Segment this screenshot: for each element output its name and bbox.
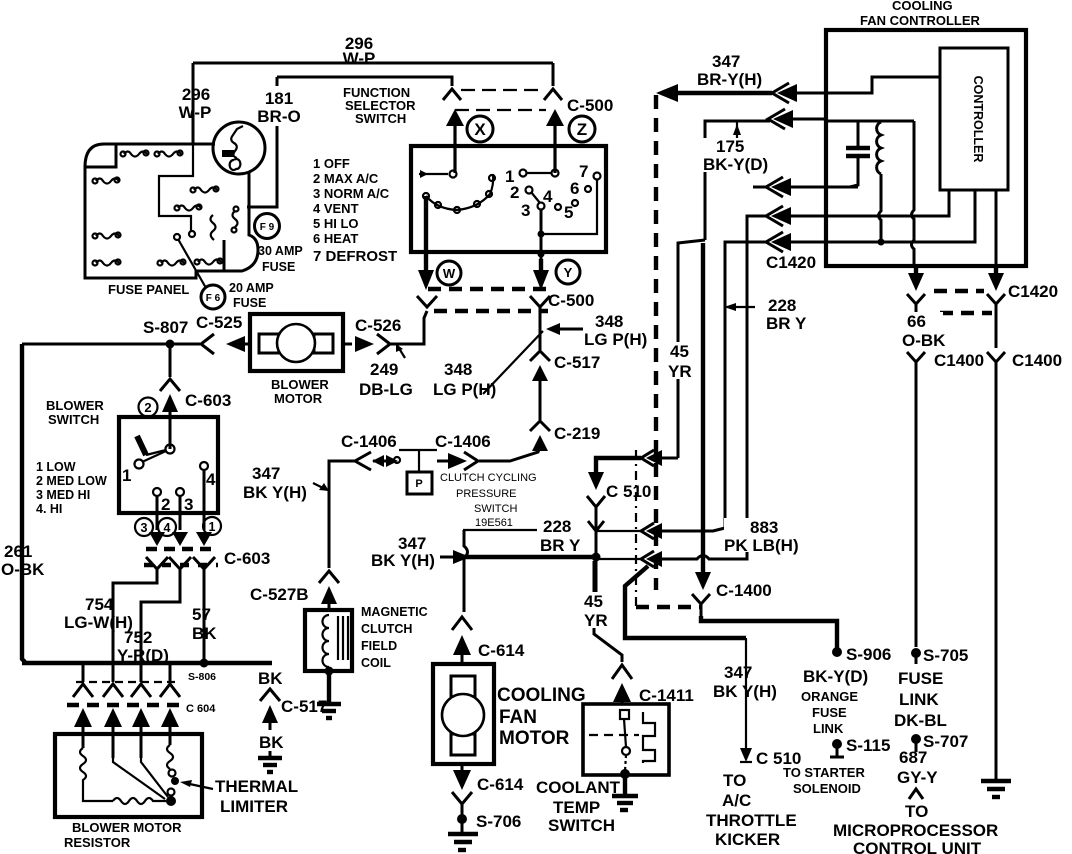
male arrow C-517 lower	[262, 705, 278, 730]
inductor coil inside controller	[877, 122, 881, 174]
male arrow terminal 3	[172, 532, 188, 546]
svg-text:4: 4	[543, 187, 553, 206]
svg-text:1: 1	[209, 520, 216, 534]
svg-text:A/C: A/C	[722, 791, 751, 810]
label MAGNETIC CLUTCH FIELD COIL	[361, 605, 428, 670]
blower switch wiper	[135, 436, 175, 469]
resistor leg 2 diagonal	[113, 758, 165, 799]
terminal 2 wire	[153, 488, 170, 530]
wire C-603 vertical from S-807	[169, 348, 172, 377]
svg-text:228: 228	[543, 517, 571, 536]
svg-text:BK Y(H): BK Y(H)	[371, 551, 435, 570]
capacitor C inside controller	[846, 121, 870, 187]
fuse symbols bottom row	[158, 259, 223, 266]
svg-text:C-525: C-525	[196, 313, 242, 332]
long dashed vertical (controller harness boundary)	[654, 95, 658, 590]
dashed connector bottom (C-1400 boundary)	[636, 605, 700, 609]
svg-text:1 OFF: 1 OFF	[313, 156, 350, 171]
fuse symbols left column	[93, 178, 121, 266]
svg-text:THERMAL: THERMAL	[215, 777, 298, 796]
wire function selector feed	[277, 77, 452, 86]
female chevron resistor 4	[160, 684, 180, 697]
label FUNCTION SELECTOR SWITCH	[343, 85, 416, 126]
male arrow C-1411	[613, 683, 631, 704]
label 687 GY-Y	[897, 748, 938, 787]
svg-text:C-614: C-614	[478, 641, 525, 660]
resistor element bottom (squiggle)	[113, 798, 167, 804]
wire pressure switch top link	[399, 449, 437, 451]
svg-text:2 MAX A/C: 2 MAX A/C	[313, 171, 379, 186]
dashed connector bus C 604	[67, 703, 185, 707]
female chevron below right output	[987, 294, 1005, 304]
svg-text:MAGNETIC: MAGNETIC	[361, 605, 428, 619]
svg-text:O-BK: O-BK	[902, 331, 946, 350]
svg-text:LIMITER: LIMITER	[220, 797, 288, 816]
wire pair2 left side	[596, 530, 640, 532]
svg-text:2: 2	[510, 183, 519, 202]
wire row3 stub left	[753, 186, 768, 189]
selector output W heavy wire and arrow	[418, 196, 434, 290]
svg-text:BR Y: BR Y	[540, 536, 581, 555]
chevron pair row3	[766, 177, 826, 197]
male arrow C-603 into blower switch	[162, 394, 178, 449]
svg-text:C-517: C-517	[554, 353, 600, 372]
legend 1 LOW 2 MED LOW 3 MED HI 4 HI	[36, 460, 107, 516]
dashed connector segment row2	[940, 311, 992, 315]
svg-text:5: 5	[564, 203, 573, 222]
svg-text:2: 2	[144, 400, 151, 415]
selector contact arc	[423, 174, 495, 213]
svg-text:DK-BL: DK-BL	[894, 711, 947, 730]
female chevron below left output	[907, 294, 925, 304]
chevron pair row2	[768, 109, 826, 129]
svg-text:1 LOW: 1 LOW	[36, 460, 76, 474]
svg-text:C-1406: C-1406	[435, 432, 491, 451]
wire 752 Y-R(D) from terminal 3	[141, 580, 180, 682]
svg-text:181: 181	[265, 89, 293, 108]
svg-text:C-603: C-603	[224, 549, 270, 568]
label CLUTCH CYCLING PRESSURE SWITCH 19E561	[440, 472, 537, 529]
connector C-219 chevron pair	[530, 421, 550, 451]
male arrow C-614 top	[453, 635, 471, 666]
female chevron C-614 top	[452, 617, 472, 630]
label COOLING FAN MOTOR	[497, 685, 586, 749]
wire coil to ground	[325, 667, 334, 704]
svg-text:GY-Y: GY-Y	[897, 768, 938, 787]
label 66 O-BK	[902, 312, 946, 350]
svg-text:FUSE: FUSE	[898, 669, 943, 688]
svg-text:THROTTLE: THROTTLE	[706, 811, 797, 830]
female chevron resistor 2	[103, 684, 123, 697]
resistor element left (squiggle)	[80, 748, 113, 801]
wire 175 BK-Y(D) from row2	[705, 121, 770, 240]
male arrow into blower motor	[226, 336, 250, 352]
male arrow resistor 3	[132, 708, 150, 758]
svg-text:S-906: S-906	[846, 645, 891, 664]
terminal 4 wire	[200, 462, 216, 530]
blower motor box	[250, 314, 343, 371]
svg-text:W-P: W-P	[343, 49, 376, 68]
svg-text:4: 4	[164, 521, 171, 535]
svg-text:FIELD: FIELD	[361, 639, 397, 653]
svg-text:SWITCH: SWITCH	[548, 816, 615, 835]
controller output left arrow C1420	[908, 266, 924, 291]
svg-text:S-706: S-706	[476, 812, 521, 831]
svg-text:30 AMP: 30 AMP	[258, 244, 303, 258]
wire pin3 down to Y output	[538, 209, 545, 259]
svg-text:45: 45	[584, 592, 603, 611]
dashed connector segment row1	[934, 289, 984, 293]
cooling fan controller box	[826, 30, 1026, 266]
svg-text:YR: YR	[584, 611, 608, 630]
blower switch box	[119, 417, 218, 513]
female chevron C-614 bottom	[452, 792, 472, 833]
svg-text:COOLANT: COOLANT	[536, 778, 621, 797]
svg-text:C1400: C1400	[934, 351, 984, 370]
wire chevron3 down to coolant switch (45 YR)	[594, 561, 622, 662]
female chevron C-1406 left	[355, 452, 371, 470]
svg-text:C-1400: C-1400	[716, 581, 772, 600]
selector output Y arrow	[533, 259, 549, 290]
svg-text:BR Y: BR Y	[766, 314, 807, 333]
pressure switch underline	[463, 529, 537, 531]
W-P wire inside fuse panel to 20A fuse	[159, 143, 193, 231]
chevron to microprocessor	[909, 789, 923, 799]
magnetic clutch field coil box	[305, 610, 352, 671]
connector chevron (X feed from 181 BR-O)	[443, 89, 461, 100]
male arrow resistor 4	[161, 708, 179, 745]
coolant switch dashed actuator line	[589, 734, 639, 736]
chevron pair row4	[766, 206, 826, 226]
label 296 W-P (top)	[343, 34, 376, 68]
wire row1 inside box to controller	[826, 77, 940, 93]
female chevron C-527B	[319, 571, 339, 583]
svg-text:57: 57	[192, 605, 211, 624]
female chevron Y	[530, 296, 550, 307]
label 752 Y-R(D)	[117, 628, 169, 665]
svg-text:175: 175	[716, 137, 744, 156]
circled 4 below switch	[158, 518, 176, 536]
female chevron Y terminal2	[146, 557, 168, 580]
svg-text:COOLING: COOLING	[497, 685, 586, 706]
splice S-707	[911, 734, 921, 752]
svg-text:CLUTCH: CLUTCH	[361, 622, 412, 636]
label 181 BR-O	[257, 89, 300, 126]
svg-text:DB-LG: DB-LG	[359, 380, 413, 399]
label 296 W-P (left)	[179, 85, 212, 122]
svg-text:MICROPROCESSOR: MICROPROCESSOR	[833, 821, 998, 840]
svg-text:BK Y(H): BK Y(H)	[243, 483, 307, 502]
svg-text:PK LB(H): PK LB(H)	[724, 536, 799, 555]
svg-text:Z: Z	[577, 120, 587, 139]
circled 1 below switch	[203, 517, 221, 535]
svg-text:SWITCH: SWITCH	[48, 412, 99, 427]
selector pin 6	[570, 179, 591, 198]
label 57 BK	[192, 605, 217, 643]
svg-text:LG-W(H): LG-W(H)	[64, 613, 133, 632]
20 amp fuse diagonal	[174, 234, 206, 288]
connector C-517 chevron pair	[530, 351, 550, 420]
svg-text:S-807: S-807	[143, 318, 188, 337]
label 883 PK LB(H)	[724, 518, 808, 555]
label 20 AMP FUSE	[229, 281, 274, 310]
splice S-115	[830, 739, 844, 757]
svg-text:687: 687	[899, 748, 927, 767]
female chevron C-603 top	[160, 379, 180, 391]
wire row4 to controller pin1	[826, 191, 949, 216]
svg-text:ORANGE: ORANGE	[801, 689, 858, 704]
dashed connector bus C-603	[146, 547, 214, 551]
svg-text:BK: BK	[258, 669, 283, 688]
coolant temp switch box	[583, 704, 669, 775]
male arrow terminal 4	[196, 532, 212, 546]
fuse symbols row 1	[121, 151, 183, 157]
svg-text:F 9: F 9	[260, 222, 275, 233]
svg-text:6 HEAT: 6 HEAT	[313, 231, 358, 246]
svg-text:FAN: FAN	[499, 707, 537, 728]
svg-text:7 DEFROST: 7 DEFROST	[313, 248, 397, 265]
male arrow resistor 1	[74, 708, 92, 748]
svg-text:2: 2	[161, 495, 170, 514]
wire 261 O-BK left vertical	[22, 344, 25, 662]
blower motor resistor box	[55, 734, 202, 817]
selector pin 7	[579, 162, 601, 181]
svg-text:2 MED LOW: 2 MED LOW	[36, 474, 107, 488]
controller inner box U1	[940, 48, 1008, 190]
svg-text:BK-Y(D): BK-Y(D)	[703, 155, 768, 174]
svg-text:SOLENOID: SOLENOID	[793, 781, 861, 796]
label BLOWER SWITCH	[46, 398, 104, 427]
female chevron C-526	[377, 334, 390, 354]
svg-text:COIL: COIL	[361, 656, 391, 670]
chevron pair row1 (347 BR-Y(H))	[772, 83, 826, 103]
label COOLING FAN CONTROLLER	[860, 0, 980, 28]
selector pin 2 and wiper	[510, 183, 540, 203]
male arrow C-527B	[321, 586, 337, 610]
label 754 LG-W(H)	[64, 595, 133, 632]
pressure switch P box	[407, 450, 432, 494]
dashed connector bus C-500 row2	[434, 309, 548, 313]
svg-text:LINK: LINK	[899, 690, 939, 709]
label 175 BK-Y(D) with tick	[702, 122, 770, 174]
svg-text:20 AMP: 20 AMP	[229, 281, 274, 295]
dashed line C-500 top row	[461, 89, 543, 91]
wire pair3 left side	[596, 558, 640, 560]
svg-text:SWITCH: SWITCH	[355, 111, 406, 126]
svg-text:4: 4	[206, 470, 216, 489]
double arrow connector C-1406	[372, 455, 400, 467]
wire left output down	[915, 304, 918, 348]
circled W	[437, 261, 461, 285]
svg-text:249: 249	[370, 360, 398, 379]
wire 228 BR Y from row5	[725, 242, 768, 528]
circled Z	[569, 116, 595, 142]
svg-text:C-219: C-219	[554, 424, 600, 443]
svg-text:BLOWER: BLOWER	[271, 377, 329, 392]
ground (57 BK)	[258, 751, 282, 772]
ground (right column)	[981, 781, 1011, 797]
controller output right arrow C1420	[988, 266, 1004, 291]
female chevron C-517 lower	[260, 689, 280, 701]
label 228 BR Y (right) with tick arrow	[724, 296, 807, 333]
label 347 BK Y(H) (lower) with arrow	[371, 534, 470, 570]
wire thin drop to C 510 arrow	[740, 638, 752, 762]
svg-text:C-526: C-526	[355, 316, 401, 335]
coolant switch contacts	[620, 710, 630, 771]
splice S-706	[457, 814, 467, 824]
wire 296 W-P vertical drop to fuse panel	[192, 63, 195, 143]
circled 3 below switch	[135, 518, 153, 536]
ground (fan motor)	[448, 834, 478, 850]
svg-text:228: 228	[768, 296, 796, 315]
selector pin 5	[564, 200, 578, 222]
label COOLANT TEMP SWITCH	[536, 778, 621, 835]
svg-text:COOLING: COOLING	[892, 0, 953, 13]
wire coil top drop (pin lead)	[912, 121, 915, 266]
svg-text:C-1406: C-1406	[341, 432, 397, 451]
wire pair2 merge from 725 and 703	[660, 528, 725, 531]
svg-text:BLOWER: BLOWER	[46, 398, 104, 413]
svg-text:19E561: 19E561	[475, 517, 513, 529]
svg-text:C 510: C 510	[756, 749, 801, 768]
svg-text:5 HI LO: 5 HI LO	[313, 216, 359, 231]
female chevron C 510	[587, 496, 605, 507]
svg-text:X: X	[474, 120, 486, 139]
label 45 YR	[666, 342, 694, 381]
svg-text:347: 347	[724, 663, 752, 682]
svg-text:MOTOR: MOTOR	[499, 728, 570, 749]
fuse symbols middle	[175, 187, 239, 241]
svg-text:FUSE: FUSE	[233, 296, 266, 310]
wire 45 YR branch	[678, 240, 705, 458]
male arrow terminal 2	[149, 532, 165, 546]
svg-text:F 6: F 6	[206, 293, 221, 304]
svg-text:LG P(H): LG P(H)	[584, 330, 647, 349]
svg-text:66: 66	[907, 312, 926, 331]
fuse panel 30A fuse holder circle	[213, 122, 265, 174]
wire 347 BR-Y(H) arrow to left	[656, 84, 772, 102]
svg-text:C 510: C 510	[606, 482, 651, 501]
wire C-219 diagonal to pressure switch	[479, 447, 540, 461]
female chevron C-1400	[692, 594, 710, 618]
svg-text:MOTOR: MOTOR	[274, 391, 323, 406]
30A fuse symbol inside holder	[222, 126, 243, 170]
svg-text:TEMP: TEMP	[553, 798, 600, 817]
label 45 YR (lower)	[583, 592, 611, 630]
svg-text:P: P	[415, 478, 422, 490]
label 348 LG P(H) (right) with arrow	[546, 312, 647, 349]
svg-text:3: 3	[184, 495, 193, 514]
resistor leg 3 diagonal	[141, 758, 168, 797]
male arrow C-1406 right	[437, 453, 467, 469]
svg-text:BLOWER MOTOR: BLOWER MOTOR	[72, 820, 182, 835]
svg-text:FUSE PANEL: FUSE PANEL	[108, 282, 189, 297]
svg-text:C1420: C1420	[766, 253, 816, 272]
wire pair3 to 883 vertical with hop	[660, 552, 747, 559]
label THERMAL LIMITER with arrow	[180, 777, 298, 816]
svg-text:Y: Y	[564, 265, 573, 280]
label FUSE LINK DK-BL	[894, 669, 947, 730]
ground (coolant temp switch)	[612, 796, 638, 810]
selector pin 3	[521, 201, 545, 220]
svg-text:3 MED HI: 3 MED HI	[36, 488, 90, 502]
female chevron Y terminal4	[193, 557, 215, 580]
wire controller pin3 down	[995, 191, 998, 266]
selector wiper arrow left	[419, 170, 457, 178]
blower motor symbol	[259, 324, 333, 362]
svg-text:883: 883	[750, 518, 778, 537]
wire pressure switch to fan motor (hop over 347)	[464, 530, 468, 612]
male arrow C 510	[588, 472, 604, 490]
label 347 BK Y(H) (upper) with tick	[243, 464, 329, 502]
label TO MICROPROCESSOR CONTROL UNIT	[833, 802, 998, 854]
svg-text:S-115: S-115	[846, 736, 890, 755]
wire 181 BR-O vertical	[276, 77, 279, 86]
svg-text:FUSE: FUSE	[262, 260, 295, 274]
label 347 BR-Y(H)	[697, 52, 762, 89]
svg-text:3 NORM A/C: 3 NORM A/C	[313, 186, 390, 201]
circled 2	[139, 398, 158, 417]
svg-text:S-806: S-806	[188, 671, 216, 683]
svg-text:4 VENT: 4 VENT	[313, 201, 359, 216]
wire from chevron to C 510 arrow	[596, 458, 641, 473]
svg-text:BR-Y(H): BR-Y(H)	[697, 70, 762, 89]
female chevron resistor 3	[131, 684, 151, 697]
female chevron W	[417, 296, 437, 307]
wire 703 down to C-1400 arrow	[695, 243, 711, 590]
svg-text:752: 752	[124, 628, 152, 647]
svg-text:W: W	[443, 266, 456, 281]
svg-text:3: 3	[521, 201, 530, 220]
wire right output down	[995, 304, 998, 348]
svg-text:7: 7	[579, 162, 588, 181]
female chevron C1400 right	[987, 352, 1005, 779]
thin dashed connector line C 604	[76, 681, 177, 683]
svg-text:C-527B: C-527B	[250, 585, 309, 604]
fan motor symbol	[442, 676, 484, 755]
svg-text:4. HI: 4. HI	[36, 502, 62, 516]
male arrow resistor 2	[104, 708, 122, 758]
svg-text:FUSE: FUSE	[812, 705, 847, 720]
fuse panel outline	[85, 144, 258, 278]
splice S-705 on right column	[911, 648, 921, 664]
wire resistor feed horizontal	[22, 661, 272, 665]
svg-text:C1400: C1400	[1012, 351, 1062, 370]
label TO STARTER SOLENOID	[783, 765, 865, 796]
svg-text:W-P: W-P	[179, 103, 212, 122]
svg-text:C-1411: C-1411	[639, 686, 694, 705]
svg-text:BK: BK	[259, 733, 284, 752]
chevron pair 2 (228 BR Y through C-510)	[641, 523, 662, 539]
selector pin 1	[505, 167, 559, 186]
dashed connector bus C-500 row1	[428, 287, 548, 291]
svg-text:BK: BK	[192, 624, 217, 643]
svg-text:C-517: C-517	[281, 697, 327, 716]
svg-text:RESISTOR: RESISTOR	[64, 835, 131, 850]
wire 347 BK Y(H) vertical to clutch coil	[329, 461, 355, 568]
svg-text:C-603: C-603	[185, 391, 231, 410]
wire C-1400 down and right to S-906	[701, 616, 842, 657]
svg-text:348: 348	[595, 312, 623, 331]
svg-text:S-707: S-707	[923, 732, 968, 751]
chevron pair row5	[766, 232, 826, 252]
svg-text:SWITCH: SWITCH	[474, 503, 517, 515]
dashed connector bus C-603 row2	[144, 563, 218, 567]
svg-text:FAN CONTROLLER: FAN CONTROLLER	[860, 13, 980, 28]
svg-text:CONTROL UNIT: CONTROL UNIT	[853, 839, 982, 854]
svg-text:TO: TO	[723, 771, 746, 790]
terminal 3 wire	[176, 488, 193, 530]
